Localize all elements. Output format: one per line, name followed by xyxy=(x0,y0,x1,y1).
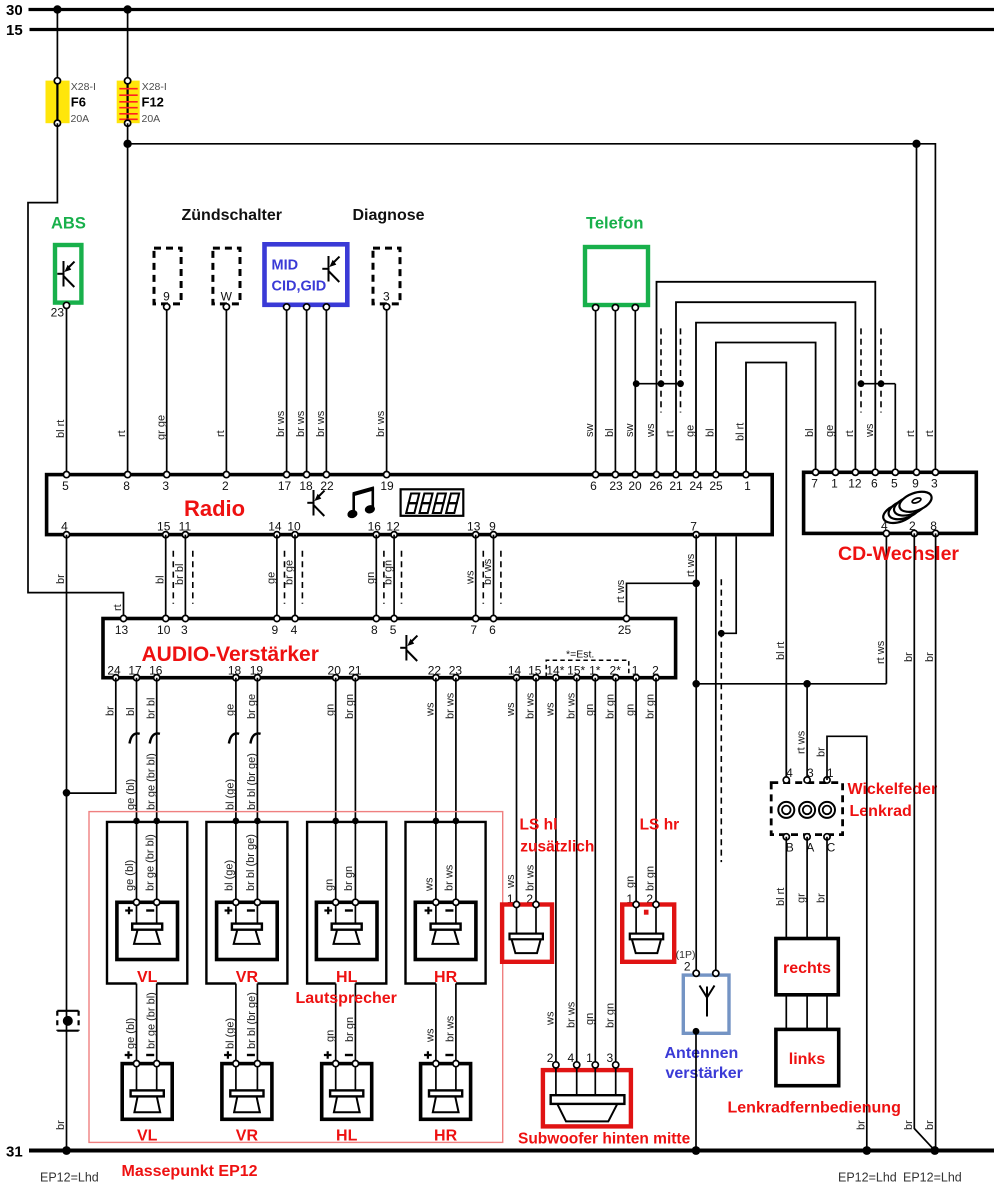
wire Telefon to radio pin 20 (sw) xyxy=(624,311,636,472)
wire Wickelfeder B to rechts (bl rt) xyxy=(775,837,787,939)
svg-text:br ws: br ws xyxy=(444,864,456,891)
wire radio to amplifier (br ge) xyxy=(284,535,296,617)
svg-text:9: 9 xyxy=(272,623,279,637)
svg-text:24: 24 xyxy=(107,664,121,678)
wire rail30 to fuse F12 xyxy=(123,5,131,80)
svg-text:3: 3 xyxy=(181,623,188,637)
svg-text:19: 19 xyxy=(380,479,394,493)
svg-text:11: 11 xyxy=(179,520,192,534)
svg-text:gn: gn xyxy=(324,704,336,716)
Zündschalter contact 9 (dashed box) xyxy=(154,248,181,310)
svg-text:br ws: br ws xyxy=(525,692,537,719)
svg-text:gr ge: gr ge xyxy=(155,415,167,440)
svg-text:3: 3 xyxy=(383,290,390,304)
svg-text:bl (ge): bl (ge) xyxy=(224,860,236,891)
wire Wickelfeder pin 1 to rail 31 (br) xyxy=(816,736,872,1155)
svg-text:rt: rt xyxy=(112,604,124,611)
junction at speaker enclosure xyxy=(453,818,460,825)
svg-text:10: 10 xyxy=(287,520,301,534)
svg-text:23: 23 xyxy=(609,479,623,493)
wire speaker lead lower (gn) xyxy=(324,984,336,1091)
svg-text:ws: ws xyxy=(425,1028,437,1043)
wire radio to amplifier (br gn) xyxy=(383,535,395,617)
wire amplifier pin 15 to LS hl pin 2 (br ws) xyxy=(525,678,537,906)
screen dashed lines xyxy=(173,551,193,604)
Zündschalter contact W (dashed box) xyxy=(213,248,240,310)
wire rail30 to fuse F6 xyxy=(53,5,61,80)
wire speaker lead lower (bl (ge)) xyxy=(225,984,237,1091)
svg-text:8: 8 xyxy=(371,623,378,637)
svg-text:23: 23 xyxy=(449,664,463,678)
svg-text:br: br xyxy=(855,1120,867,1130)
svg-text:3: 3 xyxy=(807,766,814,780)
wire radio to amplifier (gn) xyxy=(365,535,377,617)
svg-text:5: 5 xyxy=(390,623,397,637)
Wickelfeder label xyxy=(848,781,938,820)
svg-text:Telefon: Telefon xyxy=(586,215,643,233)
svg-text:ws: ws xyxy=(464,570,476,585)
wire amplifier to speaker (bl) xyxy=(124,678,140,903)
wire antenna amplifier to rail 31 xyxy=(692,1033,701,1155)
door speaker HR upper xyxy=(415,899,476,986)
svg-text:ws: ws xyxy=(864,423,876,438)
svg-text:9: 9 xyxy=(163,290,170,304)
svg-text:17: 17 xyxy=(128,664,142,678)
wire amplifier to speaker (br gn) xyxy=(343,678,356,903)
svg-text:2: 2 xyxy=(684,960,691,974)
svg-text:14: 14 xyxy=(508,664,522,678)
svg-text:gn: gn xyxy=(584,704,596,716)
svg-text:br: br xyxy=(816,747,828,757)
svg-text:bl: bl xyxy=(154,575,166,584)
svg-text:br ge: br ge xyxy=(246,694,258,719)
svg-text:br: br xyxy=(104,706,116,716)
wire CD pin 8 to rail 31 (br) xyxy=(924,533,939,1155)
svg-text:8: 8 xyxy=(123,479,130,493)
Diagnose connector 3 (dashed box) xyxy=(373,248,400,310)
junction at speaker enclosure xyxy=(433,818,440,825)
svg-text:Radio: Radio xyxy=(184,496,245,521)
svg-text:9: 9 xyxy=(489,520,496,534)
coax screen dashed line xyxy=(720,579,722,862)
wire fuse F6 to amplifier pin 13 (rt) xyxy=(28,123,124,615)
screen dashed lines xyxy=(384,551,402,604)
svg-text:25: 25 xyxy=(618,623,632,637)
svg-text:br ws: br ws xyxy=(525,864,537,891)
radio top pin numbers xyxy=(62,479,751,493)
speaker enclosure HL xyxy=(307,822,386,984)
amplifier top pin circles xyxy=(120,615,629,621)
svg-text:6: 6 xyxy=(590,479,597,493)
wire speaker lead lower (br ge (br bl)) xyxy=(145,984,157,1091)
wire Diagnose 3 to radio pin 19 (br ws) xyxy=(375,310,387,472)
svg-text:Lautsprecher: Lautsprecher xyxy=(296,990,397,1007)
wire Wickelfeder C to rechts (br) xyxy=(816,837,828,939)
screen link wire right to CD pin 5 xyxy=(858,380,896,471)
door speaker VL upper xyxy=(117,899,178,986)
svg-text:1: 1 xyxy=(632,664,639,678)
svg-text:rt ws: rt ws xyxy=(796,730,808,754)
Telefon unit xyxy=(585,215,648,311)
additional speaker LS hl zusätzlich xyxy=(502,817,594,962)
svg-text:ge (bl): ge (bl) xyxy=(124,860,136,891)
radio top pin circles xyxy=(63,472,749,478)
svg-text:gn: gn xyxy=(365,572,377,584)
EP12=Lhd notes right xyxy=(838,1171,962,1185)
junction at speaker enclosure xyxy=(254,818,261,825)
svg-text:15: 15 xyxy=(157,520,171,534)
wire speaker lead lower (ws) xyxy=(425,984,437,1091)
svg-text:*=Est.: *=Est. xyxy=(566,649,594,661)
wire amplifier to speaker (br ge) xyxy=(245,678,261,903)
steering wheel remote rechts xyxy=(776,939,838,995)
wire amplifier to speaker (ge) xyxy=(224,678,240,903)
steering wheel remote links xyxy=(776,1029,839,1085)
svg-text:gn: gn xyxy=(323,879,335,891)
svg-text:19: 19 xyxy=(250,664,264,678)
svg-text:VR: VR xyxy=(236,969,259,986)
junction at speaker enclosure xyxy=(153,818,160,825)
svg-text:3: 3 xyxy=(162,479,169,493)
svg-text:(1P): (1P) xyxy=(676,949,696,961)
door speaker HL upper xyxy=(316,899,377,986)
screen link wire left with junctions xyxy=(633,380,684,387)
amplifier electronic symbol xyxy=(400,635,417,661)
svg-text:br: br xyxy=(924,652,936,662)
svg-text:22: 22 xyxy=(428,664,442,678)
wire MID to radio pin 17 (br ws) xyxy=(275,310,287,472)
wire ABS pin 23 to radio pin 5 (bl rt) xyxy=(55,308,67,471)
svg-text:EP12=Lhd: EP12=Lhd xyxy=(838,1171,897,1185)
wire Telefon to radio pin 6 (sw) xyxy=(584,311,596,472)
svg-text:br bl (br ge): br bl (br ge) xyxy=(246,753,258,810)
wire radio pin 21 to CD pin 12 (rt) xyxy=(665,302,856,471)
svg-text:15: 15 xyxy=(6,22,23,39)
svg-text:bl rt: bl rt xyxy=(55,420,67,438)
svg-text:bl (ge): bl (ge) xyxy=(225,779,237,810)
svg-text:br ws: br ws xyxy=(295,410,307,437)
inline ground connector on br wire xyxy=(57,1011,78,1031)
wire amplifier to subwoofer pin 1 (gn) xyxy=(584,678,596,1065)
svg-text:br gn: br gn xyxy=(344,694,356,719)
svg-text:17: 17 xyxy=(278,479,292,493)
svg-text:8: 8 xyxy=(930,519,937,533)
junction at speaker enclosure xyxy=(233,818,240,825)
wire radio to amplifier (ge) xyxy=(266,535,278,617)
wire MID to radio pin 22 (br ws) xyxy=(315,310,327,472)
antenna coax from radio xyxy=(715,537,717,974)
fuse F12 20A X28-I xyxy=(117,78,167,127)
wires rechts to links xyxy=(786,995,827,1030)
svg-text:Subwoofer hinten mitte: Subwoofer hinten mitte xyxy=(518,1131,691,1148)
svg-text:12: 12 xyxy=(848,477,862,491)
svg-text:ws: ws xyxy=(505,702,517,717)
svg-text:rt: rt xyxy=(905,430,917,437)
display unit MID CID,GID xyxy=(265,244,348,310)
svg-text:ABS: ABS xyxy=(51,215,86,233)
svg-text:HR: HR xyxy=(434,1128,458,1145)
svg-text:br: br xyxy=(55,1120,67,1130)
svg-text:rt: rt xyxy=(665,430,677,437)
svg-text:br: br xyxy=(816,893,828,903)
wire rt ws branch to CD pin 4 xyxy=(696,535,887,684)
svg-text:gn: gn xyxy=(324,1030,336,1042)
svg-text:bl: bl xyxy=(705,428,717,437)
svg-text:4: 4 xyxy=(881,519,888,533)
svg-text:2*: 2* xyxy=(610,664,622,678)
radio head unit U-Radio xyxy=(47,475,773,535)
wire radio pin 24 to CD pin 1 (ge) xyxy=(685,323,837,472)
screen dashed lines xyxy=(285,551,303,604)
svg-text:rechts: rechts xyxy=(783,960,831,977)
amplifier bottom pin circles xyxy=(113,675,659,681)
svg-text:bl rt: bl rt xyxy=(775,888,787,906)
svg-text:br gn: br gn xyxy=(604,694,616,719)
wire radio to amplifier (br ws) xyxy=(482,535,494,617)
svg-text:22: 22 xyxy=(320,479,334,493)
screen dashed lines xyxy=(483,551,501,604)
svg-text:ge (bl): ge (bl) xyxy=(125,1018,137,1049)
svg-text:1*: 1* xyxy=(589,664,601,678)
svg-text:1: 1 xyxy=(831,477,838,491)
additional speaker LS hr xyxy=(622,817,679,962)
svg-text:br: br xyxy=(55,574,67,584)
svg-text:EP12=Lhd: EP12=Lhd xyxy=(903,1171,962,1185)
svg-text:2: 2 xyxy=(222,479,229,493)
svg-text:X28-I: X28-I xyxy=(142,81,167,93)
wire Telefon to radio pin 23 (bl) xyxy=(604,311,616,472)
junction rt ws distribution xyxy=(692,680,700,688)
radio electronic symbol xyxy=(307,490,324,516)
wire amplifier to speaker (br bl) xyxy=(144,678,160,903)
svg-text:12: 12 xyxy=(386,520,400,534)
svg-text:rt: rt xyxy=(924,430,936,437)
CD-Wechsler unit xyxy=(804,472,977,565)
svg-text:ge: ge xyxy=(824,425,836,437)
svg-text:F6: F6 xyxy=(71,95,86,110)
radio bottom pin numbers xyxy=(61,520,697,534)
svg-text:rt: rt xyxy=(215,430,227,437)
svg-text:bl rt: bl rt xyxy=(775,642,787,660)
svg-text:br bl (br ge): br bl (br ge) xyxy=(246,992,258,1049)
svg-text:Diagnose: Diagnose xyxy=(353,207,425,224)
svg-text:links: links xyxy=(789,1051,826,1068)
wire amplifier pin 1 to LS hr pin 1 (gn) xyxy=(625,678,637,906)
svg-text:br bl (br ge): br bl (br ge) xyxy=(245,834,257,891)
svg-text:gn: gn xyxy=(625,704,637,716)
wire Zündschalter W to radio pin 2 (rt) xyxy=(215,310,227,472)
svg-text:ws: ws xyxy=(424,877,436,892)
wire radio to amplifier (br bl) xyxy=(174,535,186,617)
junction rt ws to Wickelfeder pin 3 xyxy=(803,680,811,688)
door speaker HL lower xyxy=(322,1051,372,1144)
speaker enclosure VL xyxy=(107,822,187,984)
svg-text:bl: bl xyxy=(604,428,616,437)
svg-text:VL: VL xyxy=(137,1128,158,1145)
svg-text:7: 7 xyxy=(470,623,477,637)
svg-text:gn: gn xyxy=(625,876,637,888)
svg-text:rt: rt xyxy=(116,430,128,437)
svg-text:bl rt: bl rt xyxy=(735,423,747,441)
wire rt ws to Wickelfeder pin 3 xyxy=(796,684,808,777)
svg-text:24: 24 xyxy=(689,479,703,493)
wire radio pin 26 to CD pin 6 (ws) xyxy=(645,282,876,472)
svg-text:br gn: br gn xyxy=(645,866,657,891)
wire amplifier to subwoofer pin 3 (br gn) xyxy=(604,678,616,1065)
wire radio to amplifier (ws) xyxy=(464,535,476,617)
wire speaker lead lower (br gn) xyxy=(344,984,356,1091)
screen drain dashed lines left xyxy=(661,328,681,412)
junction br wire at rail 31 xyxy=(62,1146,71,1155)
junction at speaker enclosure xyxy=(352,818,359,825)
svg-text:br ws: br ws xyxy=(445,1015,457,1042)
wire amplifier to speaker (br ws) xyxy=(444,678,457,903)
wire fuse F12 to radio pin 8 (rt) xyxy=(116,123,128,471)
wire speaker lead lower (ge (bl)) xyxy=(125,984,137,1091)
Subwoofer hinten mitte xyxy=(518,1062,691,1148)
wire amplifier pin 24 to ground br xyxy=(67,678,117,793)
svg-text:br ge (br bl): br ge (br bl) xyxy=(144,834,156,891)
radio display 8888 xyxy=(401,489,464,516)
wire radio pin 1 to Wickelfeder pin 4 (bl rt) xyxy=(735,363,787,777)
wire amplifier pin 2 to LS hr pin 2 (br gn) xyxy=(645,678,657,906)
junction at speaker enclosure xyxy=(133,818,140,825)
junction radio ground / amplifier pin 24 xyxy=(63,789,71,797)
svg-text:1: 1 xyxy=(744,479,751,493)
amplifier top pin numbers xyxy=(115,623,632,637)
AUDIO-Verstärker amplifier unit xyxy=(103,619,676,678)
Antennenverstärker unit xyxy=(665,949,743,1082)
ABS control unit U-ABS xyxy=(51,215,86,320)
wire amplifier to speaker (gn) xyxy=(323,678,336,903)
svg-text:ws: ws xyxy=(505,874,517,889)
svg-text:20A: 20A xyxy=(142,113,161,125)
svg-text:2: 2 xyxy=(909,519,916,533)
svg-text:br gn: br gn xyxy=(645,694,657,719)
svg-text:CD-Wechsler: CD-Wechsler xyxy=(838,543,959,565)
junction below F12 xyxy=(123,140,131,148)
svg-text:rt ws: rt ws xyxy=(875,640,887,664)
svg-text:VL: VL xyxy=(137,969,158,986)
svg-text:br gn: br gn xyxy=(604,1003,616,1028)
svg-text:16: 16 xyxy=(368,520,382,534)
screen drain dashed lines right xyxy=(861,328,881,412)
svg-text:sw: sw xyxy=(584,424,596,438)
wire amplifier to subwoofer pin 4 (br ws) xyxy=(565,678,577,1065)
svg-text:ge: ge xyxy=(225,704,237,716)
Lautsprecher group frame xyxy=(89,812,503,1143)
svg-text:br bl: br bl xyxy=(145,698,157,719)
bus rail 15 (ignition +) xyxy=(6,22,994,39)
wire MID to radio pin 18 (br ws) xyxy=(295,310,307,472)
speaker enclosure VR xyxy=(206,822,287,984)
door speaker VL lower xyxy=(122,1051,172,1144)
svg-text:16: 16 xyxy=(149,664,163,678)
svg-text:bl: bl xyxy=(804,428,816,437)
svg-text:Lenkrad: Lenkrad xyxy=(850,803,912,820)
svg-text:rt ws: rt ws xyxy=(615,579,627,603)
radio bottom pin circles xyxy=(63,532,699,538)
svg-text:ge (bl): ge (bl) xyxy=(125,779,137,810)
svg-text:HL: HL xyxy=(336,969,358,986)
junction rt ws to amplifier 25 xyxy=(692,580,700,588)
wire speaker lead lower (br bl (br ge)) xyxy=(246,984,258,1091)
CD bottom pin numbers xyxy=(881,519,937,533)
wire branch to CD-changer pin 9 (rt) xyxy=(905,140,921,472)
svg-text:br ge (br bl): br ge (br bl) xyxy=(145,753,157,810)
svg-text:9: 9 xyxy=(912,477,919,491)
svg-text:15: 15 xyxy=(528,664,542,678)
svg-text:rt ws: rt ws xyxy=(685,553,697,577)
svg-text:13: 13 xyxy=(467,520,481,534)
wire amplifier to subwoofer pin 2 (ws) xyxy=(545,678,557,1065)
svg-text:15*: 15* xyxy=(567,664,585,678)
svg-text:31: 31 xyxy=(6,1144,23,1161)
wire radio pin 7 to antenna amplifier (rt ws) xyxy=(685,535,697,974)
svg-text:rt: rt xyxy=(844,430,856,437)
svg-text:br ws: br ws xyxy=(565,692,577,719)
svg-text:4: 4 xyxy=(291,623,298,637)
svg-text:ws: ws xyxy=(545,1011,557,1026)
svg-text:14: 14 xyxy=(268,520,282,534)
svg-text:18: 18 xyxy=(299,479,313,493)
svg-text:br ws: br ws xyxy=(315,410,327,437)
svg-text:Massepunkt EP12: Massepunkt EP12 xyxy=(122,1163,258,1180)
svg-text:6: 6 xyxy=(871,477,878,491)
svg-text:br ge (br bl): br ge (br bl) xyxy=(145,992,157,1049)
svg-text:1: 1 xyxy=(827,766,834,780)
CD top pin circles xyxy=(813,469,939,475)
wire radio to amplifier (bl) xyxy=(154,535,166,617)
svg-text:br ws: br ws xyxy=(275,410,287,437)
svg-text:ge: ge xyxy=(685,425,697,437)
svg-text:20A: 20A xyxy=(71,113,90,125)
svg-text:21: 21 xyxy=(348,664,362,678)
Wickelfeder Lenkrad coil connector xyxy=(771,766,842,855)
svg-text:gn: gn xyxy=(584,1013,596,1025)
svg-text:br ge: br ge xyxy=(284,560,296,585)
svg-text:10: 10 xyxy=(157,623,171,637)
svg-text:F12: F12 xyxy=(142,95,164,110)
coax screen stub from radio xyxy=(718,537,736,637)
svg-text:Zündschalter: Zündschalter xyxy=(182,207,282,224)
svg-text:ws: ws xyxy=(545,702,557,717)
svg-text:br: br xyxy=(903,652,915,662)
svg-text:6: 6 xyxy=(489,623,496,637)
svg-text:br ws: br ws xyxy=(375,410,387,437)
amplifier Est option dashed box with *=Est. xyxy=(546,649,629,678)
svg-text:br ws: br ws xyxy=(445,692,457,719)
svg-text:br gn: br gn xyxy=(343,866,355,891)
svg-text:HL: HL xyxy=(336,1128,358,1145)
svg-text:bl: bl xyxy=(125,707,137,716)
svg-text:X28-I: X28-I xyxy=(71,81,96,93)
wire radio pin 25 to CD pin 7 (bl) xyxy=(705,343,817,472)
svg-text:25: 25 xyxy=(709,479,723,493)
speaker enclosure HR xyxy=(406,822,486,984)
junction at speaker enclosure xyxy=(332,818,339,825)
svg-text:W: W xyxy=(221,290,233,304)
wire CD pin 2 to rail 31 (br) xyxy=(903,533,935,1150)
wire amplifier pin 14 to LS hl pin 1 (ws) xyxy=(505,678,517,906)
svg-text:sw: sw xyxy=(624,424,636,438)
svg-text:5: 5 xyxy=(891,477,898,491)
svg-text:br: br xyxy=(924,1120,936,1130)
svg-text:4: 4 xyxy=(61,520,68,534)
fuse F6 20A X28-I xyxy=(46,78,96,127)
svg-text:C: C xyxy=(827,841,836,855)
wire Zündschalter 9 to radio pin 3 (gr ge) xyxy=(155,310,167,472)
